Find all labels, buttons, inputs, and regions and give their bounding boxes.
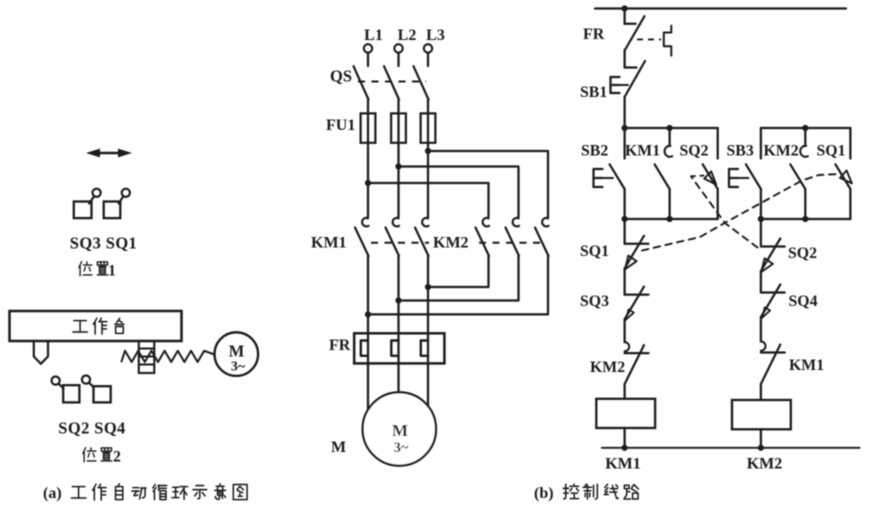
wire left group top bbox=[625, 127, 718, 129]
dog pointer on worktable bbox=[34, 341, 48, 364]
svg-text:SQ3: SQ3 bbox=[580, 293, 609, 310]
contactor KM2 main contact pole2 bbox=[506, 213, 520, 256]
motor M 3~ (power) bbox=[363, 392, 436, 465]
contact KM2 NO self-hold bbox=[790, 128, 808, 219]
limit switch SQ2 NO bbox=[703, 128, 718, 219]
contactor KM1 main contact pole2 bbox=[386, 213, 400, 256]
contactor KM1 main contact pole1 bbox=[355, 213, 369, 256]
leadscrew nut bbox=[139, 341, 155, 373]
svg-text:KM2: KM2 bbox=[747, 456, 783, 473]
SB2 actuator E bbox=[594, 169, 614, 187]
limit switch SQ1 NC bbox=[625, 236, 649, 269]
wire SQ1 to SQ3 bbox=[623, 268, 625, 294]
node rail tap bbox=[622, 5, 628, 11]
svg-text:3~: 3~ bbox=[394, 440, 409, 456]
svg-text:M: M bbox=[331, 439, 346, 456]
mechanical linkage SQ2 dashes bbox=[691, 176, 758, 248]
wire coil KM1 to rail bbox=[623, 428, 625, 448]
label 位置2 bbox=[83, 448, 112, 462]
wire L1 tap to KM2 pole1 bbox=[368, 183, 489, 217]
node left group top bbox=[667, 125, 673, 131]
motion direction arrow bbox=[86, 149, 132, 158]
svg-text:FR: FR bbox=[583, 26, 605, 43]
node join pole1 bbox=[425, 284, 431, 290]
wire right group top bbox=[761, 127, 851, 129]
wire coil KM2 to rail bbox=[760, 429, 762, 448]
wire L2 to fuse bbox=[397, 100, 399, 114]
wire right group bottom bbox=[761, 218, 851, 220]
wire KM2 pole2 to L2 leg bbox=[399, 256, 519, 301]
wire KM1 pole2 down bbox=[397, 256, 399, 393]
pushbutton SB1 NC bbox=[611, 50, 646, 97]
svg-text:KM1: KM1 bbox=[605, 456, 641, 473]
svg-text:M: M bbox=[229, 342, 245, 361]
svg-text:KM1: KM1 bbox=[789, 357, 824, 374]
limit switch symbol SQ4 bbox=[82, 376, 111, 403]
interlock contact KM1 NC bbox=[761, 342, 785, 385]
node join pole2 bbox=[395, 297, 401, 303]
wire L3 tap to KM2 pole3 bbox=[428, 151, 548, 217]
svg-text:KM2: KM2 bbox=[433, 235, 469, 252]
svg-text:L1: L1 bbox=[364, 27, 383, 44]
svg-text:1: 1 bbox=[108, 263, 116, 280]
coil KM1 bbox=[596, 399, 655, 428]
contactor KM1 main contact pole3 bbox=[415, 213, 429, 256]
svg-text:KM2: KM2 bbox=[764, 143, 799, 160]
limit switch symbol SQ2 bbox=[52, 377, 80, 403]
wire left group bottom bbox=[625, 218, 718, 220]
svg-text:SQ1: SQ1 bbox=[817, 143, 846, 160]
node right group top bbox=[802, 125, 808, 131]
limit switch SQ1 NO bbox=[835, 128, 850, 219]
pushbutton SB3 NO bbox=[746, 128, 761, 219]
wire SQ3 to KM2 NC bbox=[623, 319, 625, 342]
svg-text:QS: QS bbox=[330, 67, 352, 86]
svg-text:SQ2 SQ4: SQ2 SQ4 bbox=[58, 419, 125, 438]
wire KM1 NC to coil bbox=[760, 384, 762, 400]
wire to SQ1 NC bbox=[623, 219, 625, 244]
svg-text:KM1: KM1 bbox=[625, 143, 660, 160]
svg-text:SQ3 SQ1: SQ3 SQ1 bbox=[70, 234, 137, 253]
FR heater element symbol bbox=[664, 26, 672, 56]
svg-text:SQ4: SQ4 bbox=[789, 293, 818, 310]
contact KM1 NO self-hold bbox=[655, 128, 673, 219]
limit switch SQ2 NC bbox=[761, 239, 785, 273]
FR linkage dashes bbox=[637, 38, 661, 40]
motor M 3~ (schematic a) bbox=[215, 332, 259, 376]
svg-text:2: 2 bbox=[113, 449, 121, 466]
limit switch SQ3 NC bbox=[625, 287, 649, 320]
SQ1 NO actuator arrow bbox=[840, 171, 852, 184]
svg-text:SQ2: SQ2 bbox=[788, 245, 817, 262]
node L2 tap bbox=[395, 163, 401, 169]
wire to SQ2 NC bbox=[760, 219, 762, 245]
limit switch symbol SQ3 bbox=[74, 189, 101, 218]
node KM1 coil rail bbox=[622, 445, 628, 451]
node join pole3 bbox=[365, 311, 371, 317]
thermal relay FR NC contact bbox=[625, 9, 645, 51]
pushbutton SB2 NO bbox=[610, 128, 625, 219]
label 位置1 bbox=[79, 262, 108, 276]
limit switch SQ4 NC bbox=[761, 285, 785, 318]
svg-text:FR: FR bbox=[329, 337, 351, 354]
svg-text:KM1: KM1 bbox=[311, 235, 347, 252]
wire KM1 pole3 down bbox=[427, 256, 429, 408]
worktable 工作台 bbox=[10, 311, 182, 341]
interlock contact KM2 NC bbox=[625, 342, 649, 384]
svg-text:SB3: SB3 bbox=[727, 143, 754, 160]
wire SQ4 to KM1 NC bbox=[760, 317, 762, 341]
node KM2 coil rail bbox=[758, 445, 764, 451]
wire KM2 NC to coil bbox=[623, 384, 625, 399]
wire L2 tap to KM2 pole2 bbox=[399, 167, 519, 218]
svg-text:SQ2: SQ2 bbox=[680, 143, 709, 160]
wire L2 fuse to KM1 bbox=[397, 143, 399, 217]
svg-text:SQ1: SQ1 bbox=[580, 243, 609, 260]
svg-text:L2: L2 bbox=[398, 27, 417, 44]
svg-text:L3: L3 bbox=[426, 27, 445, 44]
QS linkage dashes bbox=[358, 81, 426, 83]
contactor KM2 main contact pole1 bbox=[476, 213, 490, 256]
svg-text:KM2: KM2 bbox=[590, 359, 625, 376]
svg-text:SB2: SB2 bbox=[581, 143, 608, 160]
KM linkage dashes bbox=[371, 242, 429, 244]
wire L3 fuse to KM1 bbox=[427, 143, 429, 217]
wire SB1 to branch point bbox=[623, 97, 625, 128]
wire KM1 pole1 down bbox=[367, 256, 369, 413]
mechanical linkage SQ1 dashes bbox=[642, 174, 839, 251]
wire L1 fuse to KM1 bbox=[367, 143, 369, 217]
SB3 actuator E bbox=[729, 169, 749, 187]
wire KM2 pole1 to L3 leg bbox=[428, 256, 489, 287]
svg-text:M: M bbox=[392, 421, 408, 440]
coil KM2 bbox=[732, 400, 791, 429]
svg-text:(b): (b) bbox=[534, 485, 554, 502]
node L3 tap bbox=[425, 148, 431, 154]
svg-text:SB1: SB1 bbox=[580, 84, 607, 101]
wire SQ2 to SQ4 bbox=[760, 271, 762, 292]
control rail top bbox=[595, 7, 846, 9]
node L1 tap bbox=[365, 180, 371, 186]
svg-text:(a): (a) bbox=[43, 485, 62, 502]
limit switch symbol SQ1 bbox=[104, 189, 130, 218]
SQ2 NO actuator arrow bbox=[704, 171, 716, 184]
wire L3 to fuse bbox=[427, 100, 429, 114]
leadscrew zigzag bbox=[122, 351, 215, 362]
svg-text:3~: 3~ bbox=[231, 360, 246, 375]
contactor KM2 main contact pole3 bbox=[535, 213, 549, 256]
wire KM2 pole3 to L1 leg bbox=[368, 256, 548, 314]
wire L1 to fuse bbox=[367, 100, 369, 114]
svg-text:FU1: FU1 bbox=[326, 117, 355, 134]
control rail bottom bbox=[602, 447, 860, 449]
